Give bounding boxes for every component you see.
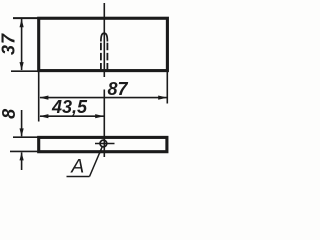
dim 87 extension line left [38, 72, 40, 122]
dim 8 extension line top [13, 136, 38, 138]
hidden hole right dashed line [106, 43, 108, 71]
dim 37 extension line top [13, 17, 38, 19]
bottom view outline [39, 137, 167, 151]
dim 8 arrow up [20, 152, 24, 160]
dim 87 dimension line [40, 97, 167, 99]
dim 37 dimension line [21, 19, 23, 70]
dim 37 arrow down [20, 62, 24, 70]
hidden hole dome top [101, 33, 108, 41]
dim 8 dimension line lower [21, 152, 23, 170]
svg-text:87: 87 [108, 79, 129, 99]
dim 37 arrow up [20, 19, 24, 27]
dim 8 extension line bottom [10, 150, 38, 152]
dim 43,5 arrow left [39, 114, 48, 118]
dim 37 extension line bottom [11, 70, 38, 72]
dim 87 arrow right [158, 96, 167, 100]
hole circle [100, 140, 107, 147]
vertical centerline front view [103, 3, 105, 77]
dim 8 arrow down [20, 128, 24, 136]
svg-text:8: 8 [0, 109, 19, 119]
dim 43,5 arrow right [95, 114, 104, 118]
leader arrowhead at hole [98, 147, 102, 153]
leader line from hole [90, 147, 103, 177]
dim 43,5 dimension line [40, 115, 104, 117]
dim 87 arrow left [39, 96, 48, 100]
svg-text:A: A [70, 156, 84, 178]
dim 87 extension line right [166, 72, 168, 104]
leader shelf underline [67, 176, 90, 178]
svg-text:37: 37 [0, 33, 19, 55]
hole centerline vertical (extension through both dims and bottom view) [103, 90, 105, 158]
dim 8 dimension line upper [21, 110, 23, 136]
hole horizontal centerline [95, 143, 115, 145]
front view outline [39, 18, 168, 70]
hidden hole left dashed line [100, 43, 102, 71]
svg-text:43,5: 43,5 [51, 97, 88, 117]
